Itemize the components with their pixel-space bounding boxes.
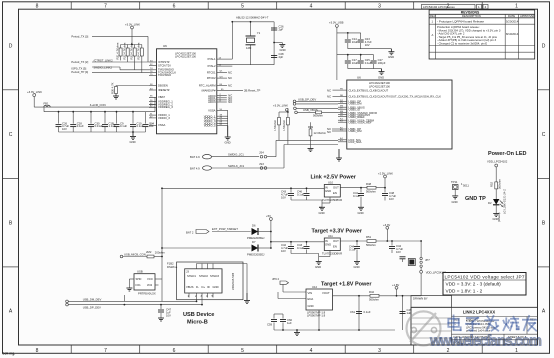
svg-text:VBAT: VBAT xyxy=(158,95,165,99)
note box JP7 voltage select xyxy=(443,273,526,296)
regulator U11 xyxy=(322,234,342,255)
svg-text:10V: 10V xyxy=(281,196,286,200)
svg-text:+3.3V_USB: +3.3V_USB xyxy=(329,20,344,24)
svg-text:U6: U6 xyxy=(163,44,167,48)
decoupling branch 2 xyxy=(337,55,382,69)
svg-text:VDDREG_3: VDDREG_3 xyxy=(158,105,173,109)
svg-text:REV: REV xyxy=(430,14,436,18)
resistor R32 pullup xyxy=(122,42,129,62)
svg-text:2B.Reset_TP: 2B.Reset_TP xyxy=(244,88,261,92)
svg-text:+3.3V_LINK: +3.3V_LINK xyxy=(27,90,42,94)
svg-text:4: 4 xyxy=(310,4,313,10)
ESD protection U9 xyxy=(129,270,162,296)
row ticks left and right xyxy=(3,90,550,267)
svg-text:1uF: 1uF xyxy=(149,124,154,128)
capacitor C14 xyxy=(345,37,359,44)
node junction dots xyxy=(58,21,422,331)
svg-text:PRTR5V0U2X: PRTR5V0U2X xyxy=(138,292,156,296)
svg-text:bok mg.: bok mg. xyxy=(3,351,16,355)
svg-text:GND: GND xyxy=(388,55,394,59)
svg-text:VDDIO_5: VDDIO_5 xyxy=(204,124,216,128)
svg-text:VBUS: VBUS xyxy=(186,285,194,289)
resistor R31 pullup xyxy=(115,42,122,60)
svg-text:GND: GND xyxy=(315,265,321,269)
svg-text:VDD = 3.3V: 2 - 3 (default: VDD = 3.3V: 2 - 3 (default) xyxy=(446,281,502,286)
column ticks top xyxy=(71,2,482,9)
svg-text:1.5Kohm: 1.5Kohm xyxy=(282,119,286,131)
svg-text:JP7: JP7 xyxy=(425,258,430,262)
svg-text:ADC3: ADC3 xyxy=(208,100,216,104)
svg-text:USB_DP_DEV: USB_DP_DEV xyxy=(83,305,101,309)
svg-text:Y1: Y1 xyxy=(257,31,261,35)
svg-text:560ohm: 560ohm xyxy=(366,190,377,194)
svg-text:100pF: 100pF xyxy=(378,61,386,65)
resistor R42 xyxy=(333,290,403,302)
capacitor C27 xyxy=(371,58,386,65)
ground cap bank xyxy=(130,132,136,140)
svg-text:RTC_ALARM: RTC_ALARM xyxy=(199,84,216,88)
svg-text:C59: C59 xyxy=(267,323,273,327)
svg-text:- Changed C2 to maximize 3x005: - Changed C2 to maximize 3x0054, pin E xyxy=(437,42,487,46)
svg-text:VCC: VCC xyxy=(147,277,153,281)
svg-text:GND: GND xyxy=(213,285,219,289)
capacitor C18 xyxy=(102,121,116,128)
capacitor C48 xyxy=(382,188,396,201)
svg-text:SWDIO_LINK2: SWDIO_LINK2 xyxy=(94,65,113,69)
svg-text:560ohm: 560ohm xyxy=(498,178,502,189)
svg-text:PMEG2005EJ: PMEG2005EJ xyxy=(247,253,265,257)
svg-text:U11: U11 xyxy=(328,234,333,238)
svg-text:GND: GND xyxy=(280,48,286,52)
capacitor C43 xyxy=(281,188,294,200)
svg-text:R52: R52 xyxy=(490,181,494,187)
svg-text:FB1: FB1 xyxy=(44,102,50,106)
svg-text:5011: 5011 xyxy=(463,184,469,188)
svg-text:8/10/2014: 8/10/2014 xyxy=(506,32,519,36)
ground 1.8 bus xyxy=(294,330,300,336)
resistor R51 xyxy=(340,235,421,247)
char fa xyxy=(485,316,498,331)
capacitor C50 near JP7 xyxy=(400,257,406,262)
svg-text:10V: 10V xyxy=(166,314,171,318)
svg-text:7: 7 xyxy=(104,4,107,10)
svg-text:LG L29K-G2J1-24-Z: LG L29K-G2J1-24-Z xyxy=(503,189,507,214)
svg-text:NC: NC xyxy=(228,76,232,80)
jumper link JS4 row xyxy=(190,140,276,159)
svg-text:RTC01: RTC01 xyxy=(207,70,216,74)
svg-text:ZX62D-B-5P8: ZX62D-B-5P8 xyxy=(231,272,235,290)
ground under TP11 xyxy=(452,196,458,199)
svg-text:Period_TX [2]: Period_TX [2] xyxy=(71,60,88,64)
svg-text:USB1_DM: USB1_DM xyxy=(349,129,363,133)
svg-text:SWCLK_JC1: SWCLK_JC1 xyxy=(228,164,245,168)
capacitor C28b xyxy=(70,121,84,128)
capacitor C28 xyxy=(271,52,284,59)
capacitor C25 xyxy=(358,58,372,65)
ground branch1 xyxy=(388,49,394,55)
svg-text:GND: GND xyxy=(378,76,384,80)
ground crystal xyxy=(279,45,285,48)
ferrite bead FB1 xyxy=(27,90,50,107)
LED D2 xyxy=(488,189,507,222)
svg-text:Period_TP [4]: Period_TP [4] xyxy=(71,70,88,74)
svg-text:STCK/TDI: STCK/TDI xyxy=(158,63,171,67)
svg-text:C: C xyxy=(9,132,13,138)
node VDD_LPC54102 led flag xyxy=(487,160,508,182)
svg-text:5: 5 xyxy=(241,4,244,10)
svg-text:2M2: 2M2 xyxy=(146,250,152,254)
svg-text:A: A xyxy=(542,309,546,315)
ground under C47 xyxy=(158,318,164,321)
svg-text:GND: GND xyxy=(325,189,331,193)
revisions table xyxy=(429,10,535,59)
svg-text:CLK0_EXTBUS_CLK2/CLKOUT/XOUT_C: CLK0_EXTBUS_CLK2/CLKOUT/XOUT_CLK200_TX_M… xyxy=(349,95,442,99)
svg-text:GND TP: GND TP xyxy=(465,196,486,202)
capacitor C45b xyxy=(297,242,310,254)
svg-text:USB_MICB_CON: USB_MICB_CON xyxy=(124,252,146,256)
ferrite F1B2 xyxy=(167,262,178,270)
svg-text:EXT_POW_TARGET: EXT_POW_TARGET xyxy=(212,227,238,231)
char zi xyxy=(466,318,479,331)
svg-text:OUT: OUT xyxy=(333,186,339,190)
svg-text:GND: GND xyxy=(358,211,364,215)
svg-text:F1B2: F1B2 xyxy=(167,262,174,266)
svg-text:10V: 10V xyxy=(365,43,370,47)
svg-text:VDD = 1.8V: 1 - 2: VDD = 1.8V: 1 - 2 xyxy=(446,288,483,293)
svg-text:D: D xyxy=(9,44,13,50)
svg-text:SHLD2: SHLD2 xyxy=(199,274,208,278)
svg-text:LINK2 LPC4XXX: LINK2 LPC4XXX xyxy=(463,310,496,315)
svg-text:0.1uF: 0.1uF xyxy=(77,124,84,128)
svg-text:TDO/SWO: TDO/SWO xyxy=(158,73,171,77)
capacitor C46 xyxy=(297,188,310,200)
char dian xyxy=(448,315,460,330)
char you xyxy=(523,316,536,331)
capacitor C9 xyxy=(114,121,128,128)
wire VDDIO bus to gnd xyxy=(227,110,229,135)
svg-text:8: 8 xyxy=(36,4,39,10)
svg-text:VDDIO_3: VDDIO_3 xyxy=(158,116,170,120)
svg-text:10uF: 10uF xyxy=(352,61,359,65)
jumper link JS3 row xyxy=(190,145,284,171)
wire xtal1 loop xyxy=(217,22,274,65)
wire xyxy=(189,293,213,305)
svg-text:NC: NC xyxy=(228,84,232,88)
svg-text:USB0_DM: USB0_DM xyxy=(349,102,363,106)
svg-text:NC: NC xyxy=(228,70,232,74)
svg-text:USB0_RREF: USB0_RREF xyxy=(349,115,366,119)
svg-text:USB_DM_DEV: USB_DM_DEV xyxy=(83,298,102,302)
svg-text:+1.8V: +1.8V xyxy=(392,283,399,287)
svg-text:USB_DP_DEV: USB_DP_DEV xyxy=(298,97,316,101)
test point TP11 xyxy=(451,180,469,196)
resistor R52 xyxy=(490,178,502,199)
ground under R30 xyxy=(113,95,119,100)
svg-text:2pF: 2pF xyxy=(279,55,284,59)
svg-text:0.1uF: 0.1uF xyxy=(353,194,360,198)
column ticks bottom xyxy=(71,345,482,353)
svg-text:8: 8 xyxy=(36,348,39,354)
svg-text:D2: D2 xyxy=(488,201,492,205)
NC marks right of U6A xyxy=(228,70,261,104)
svg-text:DESCRIPTION: DESCRIPTION xyxy=(462,14,481,18)
svg-text:VSSA: VSSA xyxy=(208,109,216,113)
svg-text:0.1uF: 0.1uF xyxy=(297,193,304,197)
capacitor C59 xyxy=(267,320,277,327)
svg-text:0.1uF: 0.1uF xyxy=(297,246,304,250)
svg-text:USB0_VSSA_REF: USB0_VSSA_REF xyxy=(349,120,372,124)
capacitor C17 xyxy=(345,58,359,65)
svg-text:LPC54102 LPCXpresso: LPC54102 LPCXpresso xyxy=(423,5,455,9)
ground under U11 xyxy=(316,262,322,265)
svg-text:GND: GND xyxy=(354,265,360,269)
node USB_DP_DEV flag xyxy=(293,97,338,105)
svg-text:BAT 4.9: BAT 4.9 xyxy=(190,166,200,170)
svg-text:0.1uF: 0.1uF xyxy=(349,248,356,252)
capacitor C26b xyxy=(56,121,70,131)
svg-text:5: 5 xyxy=(241,348,244,354)
svg-text:LPC4322JET100: LPC4322JET100 xyxy=(175,55,196,59)
svg-text:EN: EN xyxy=(333,191,337,195)
svg-text:10V: 10V xyxy=(396,250,401,254)
power flag +3.3V_USB xyxy=(329,20,344,80)
svg-text:3+LN6_CON: 3+LN6_CON xyxy=(90,103,106,107)
ground under R49 xyxy=(308,149,314,152)
svg-text:USB Device: USB Device xyxy=(183,312,214,318)
power flag +3.3V xyxy=(383,223,390,241)
svg-text:VSSA: VSSA xyxy=(158,123,166,127)
svg-text:LP5907MF-1.8: LP5907MF-1.8 xyxy=(307,313,326,317)
svg-text:+2.5V_LINK: +2.5V_LINK xyxy=(378,172,393,176)
svg-text:D7: D7 xyxy=(252,240,256,244)
node USB_MICB_CON + resistor R50 xyxy=(120,250,165,258)
svg-text:SWDIO_JC1: SWDIO_JC1 xyxy=(228,153,244,157)
wire 3.3V reg ground bus xyxy=(291,251,330,262)
wire xyxy=(197,264,248,294)
svg-text:GND: GND xyxy=(319,211,325,215)
svg-text:- Prototype LQFP64 board Relea: - Prototype LQFP64 board Release xyxy=(437,20,484,24)
svg-text:1: 1 xyxy=(515,4,518,10)
pin stubs left of U6A xyxy=(149,62,157,125)
svg-text:BAT 4.9: BAT 4.9 xyxy=(190,155,200,159)
connector J3 pins xyxy=(186,264,247,305)
capacitor C10 xyxy=(130,121,144,128)
svg-text:A: A xyxy=(9,309,13,315)
svg-text:Micro-B: Micro-B xyxy=(187,320,208,326)
wire +5V USB rail to 2.5V reg xyxy=(162,188,324,301)
header labels top-left xyxy=(71,35,149,74)
pin numbers U6A left xyxy=(150,60,153,125)
wire i2c buses xyxy=(276,112,338,145)
svg-text:R42: R42 xyxy=(369,290,375,294)
svg-text:PMEG2005EJ: PMEG2005EJ xyxy=(247,236,265,240)
wire 1.8 input xyxy=(274,292,403,330)
capacitor C23 xyxy=(358,37,372,47)
svg-text:+5V: +5V xyxy=(266,214,271,218)
svg-text:10V: 10V xyxy=(62,127,67,131)
node USB0_VBUS wire + resistor R47 xyxy=(295,108,338,118)
ground branch2 xyxy=(379,69,385,75)
resistor R49 with ground xyxy=(308,122,327,148)
svg-text:D6: D6 xyxy=(252,224,256,228)
svg-text:10V: 10V xyxy=(281,249,286,253)
IC U6 part A (LPC4322 debug probe) xyxy=(149,44,261,145)
svg-text:VOUT: VOUT xyxy=(322,291,330,295)
svg-text:10V: 10V xyxy=(389,197,394,201)
USB device outer box xyxy=(177,262,243,300)
svg-text:560ohm: 560ohm xyxy=(366,243,377,247)
svg-text:VDD_LPC54102: VDD_LPC54102 xyxy=(487,160,508,164)
svg-text:C61: C61 xyxy=(350,310,356,314)
svg-text:JS4: JS4 xyxy=(259,151,264,155)
svg-text:1: 1 xyxy=(478,5,480,9)
svg-text:XTAL2: XTAL2 xyxy=(207,64,216,68)
resistor R44 xyxy=(282,108,289,145)
svg-text:3: 3 xyxy=(378,4,381,10)
svg-text:1.5Kohm: 1.5Kohm xyxy=(273,119,277,131)
ground under D2 xyxy=(493,214,499,217)
svg-text:RTC02: RTC02 xyxy=(207,76,216,80)
svg-text:560ohm: 560ohm xyxy=(313,114,324,118)
svg-text:+3.3V: +3.3V xyxy=(383,223,390,227)
column numbers top xyxy=(36,4,519,10)
svg-text:USB_VBUS: USB_VBUS xyxy=(303,108,318,112)
capacitor C49 xyxy=(400,308,413,315)
svg-text:ISP0_TX [5]: ISP0_TX [5] xyxy=(71,67,86,71)
svg-text:SHLD1: SHLD1 xyxy=(187,274,196,278)
power flag +2.5V_LINK xyxy=(378,172,393,188)
svg-text:A: A xyxy=(432,33,434,37)
svg-text:Target +1.8V Power: Target +1.8V Power xyxy=(321,282,372,288)
title block xyxy=(411,296,538,346)
svg-text:DATE: DATE xyxy=(508,14,515,18)
capacitor C42 xyxy=(281,242,294,254)
ground xtal caps xyxy=(274,43,282,45)
ground under U9 xyxy=(126,288,132,291)
svg-text:USB: USB xyxy=(137,270,143,274)
svg-text:0.1uF: 0.1uF xyxy=(120,124,127,128)
power flag +3.3V_LINK top xyxy=(121,23,142,45)
svg-text:NC: NC xyxy=(327,130,331,134)
ground under C44 xyxy=(354,262,360,265)
svg-text:R51: R51 xyxy=(366,235,372,239)
svg-text:GND: GND xyxy=(130,140,136,144)
svg-text:ABLS2-12.000MHZ-D4Y-T: ABLS2-12.000MHZ-D4Y-T xyxy=(236,16,269,20)
ground under C41 xyxy=(358,207,364,210)
capacitor C26 xyxy=(271,25,284,32)
svg-text:EN: EN xyxy=(333,245,337,249)
svg-text:LPC54102 VDD voltage select JP: LPC54102 VDD voltage select JP7 xyxy=(445,274,525,279)
svg-text:BAT 2: BAT 2 xyxy=(186,230,194,234)
node EXT_POW_TARGET xyxy=(186,227,238,235)
ground under J3 xyxy=(244,293,250,304)
capacitor C41 mid xyxy=(353,188,364,208)
svg-text:Link +2.5V Power: Link +2.5V Power xyxy=(311,175,357,181)
capacitor C34 xyxy=(143,121,155,128)
row letters xyxy=(9,44,546,315)
svg-text:I/O1: I/O1 xyxy=(136,283,142,287)
svg-text:2pF: 2pF xyxy=(279,28,284,32)
diode D7 xyxy=(162,240,271,257)
pin numbers U6A right xyxy=(219,58,225,127)
resistor R34 pullup xyxy=(137,42,144,73)
svg-text:GND: GND xyxy=(325,243,331,247)
svg-text:SHLD3: SHLD3 xyxy=(210,274,219,278)
pin stubs left of U6B xyxy=(338,90,347,142)
svg-text:GND: GND xyxy=(493,217,499,221)
svg-text:6: 6 xyxy=(173,4,176,10)
svg-text:U6: U6 xyxy=(357,76,361,80)
wire usb data lines xyxy=(66,295,202,309)
power flag +3.3V_LINK usb pullups xyxy=(273,104,288,112)
watermark text (hand-drawn CJK strokes) xyxy=(448,315,536,330)
regulator U12 xyxy=(306,285,333,317)
svg-text:Target +3.3V Power: Target +3.3V Power xyxy=(312,228,363,234)
svg-text:ENA: ENA xyxy=(308,297,314,301)
svg-text:200ohm: 200ohm xyxy=(155,251,166,255)
regulator U10 xyxy=(322,181,342,202)
resistor R30 DBGEN pulldown xyxy=(110,82,149,94)
svg-text:USB0_ID: USB0_ID xyxy=(349,107,360,111)
capacitor C61 xyxy=(350,310,371,314)
svg-text:GND: GND xyxy=(225,141,231,145)
NC marks USB1 xyxy=(327,127,338,134)
power flag +5V junction xyxy=(266,214,324,248)
decoupling branch 1 xyxy=(337,33,392,49)
column numbers bottom xyxy=(36,348,519,354)
svg-text:I/O2: I/O2 xyxy=(147,283,153,287)
svg-text:CLK0_EXTBUS_CLK8/CLKOUT: CLK0_EXTBUS_CLK8/CLKOUT xyxy=(349,88,389,92)
svg-text:R31 4.7Kohm: R31 4.7Kohm xyxy=(115,42,119,60)
svg-text:7: 7 xyxy=(104,348,107,354)
svg-text:NC: NC xyxy=(228,100,232,104)
svg-text:/WAKEUP#: /WAKEUP# xyxy=(201,89,216,93)
svg-text:R30 4.7K: R30 4.7K xyxy=(110,82,114,94)
svg-text:APPROVED: APPROVED xyxy=(520,14,535,18)
capacitor C47 xyxy=(158,305,172,318)
svg-text:10uF: 10uF xyxy=(352,40,359,44)
svg-text:GND: GND xyxy=(308,304,314,308)
ground under U6B xyxy=(336,149,342,161)
svg-text:U12: U12 xyxy=(312,285,318,289)
char shao xyxy=(503,317,518,330)
svg-text:NC: NC xyxy=(327,88,331,92)
svg-text:NC: NC xyxy=(327,95,331,99)
ground under U10 xyxy=(319,207,325,210)
node VDD_LPC54102 flag xyxy=(403,270,447,295)
crystal Y1 xyxy=(246,31,261,50)
svg-text:B: B xyxy=(542,221,546,227)
svg-text:TLV70233DBVR: TLV70233DBVR xyxy=(322,251,342,255)
svg-text:+3.3V_LINK: +3.3V_LINK xyxy=(125,23,140,27)
svg-text:/RESET#: /RESET# xyxy=(158,88,170,92)
svg-text:J3: J3 xyxy=(186,270,189,274)
wire 2.5V reg ground bus xyxy=(291,197,330,207)
capacitor C45 xyxy=(389,241,403,254)
svg-text:6: 6 xyxy=(173,348,176,354)
svg-text:B: B xyxy=(9,221,13,227)
svg-text:LPC4322JET100: LPC4322JET100 xyxy=(369,84,390,88)
pin stubs right of U6A xyxy=(217,59,243,126)
svg-text:JP6 2: JP6 2 xyxy=(272,277,280,281)
resistor R48 xyxy=(340,182,385,194)
svg-text:Period_TX [3]: Period_TX [3] xyxy=(71,35,88,39)
capacitor C60 xyxy=(280,318,293,325)
svg-text:4: 4 xyxy=(485,5,487,9)
watermark logo circle xyxy=(407,311,441,345)
svg-text:www.elecfans.com: www.elecfans.com xyxy=(429,334,542,350)
sheet header strip xyxy=(422,4,489,9)
